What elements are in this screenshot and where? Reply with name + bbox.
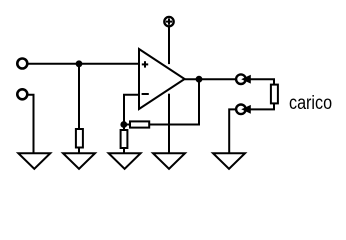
- resistor R4 load: [271, 85, 278, 104]
- ground under R3: [109, 153, 141, 169]
- node junction at R1 top: [77, 61, 82, 66]
- connector J4: [236, 105, 246, 115]
- wire J4 to ground: [229, 109, 236, 154]
- ground under op-amp: [153, 153, 185, 169]
- wire junction down to R1: [78, 64, 80, 129]
- wire op-amp V- pin to ground: [168, 94, 170, 154]
- wire node to R2: [124, 124, 130, 126]
- input terminal J2: [17, 89, 27, 99]
- resistor R1: [76, 129, 83, 148]
- op-amp U1: [139, 49, 185, 109]
- wire R2 to output: [149, 79, 199, 124]
- connector J3: [236, 74, 246, 84]
- node output junction: [197, 77, 202, 82]
- wire J1 to op-amp + input: [28, 63, 140, 65]
- wire op-amp - input to feedback node: [124, 95, 139, 125]
- wire op-amp output: [185, 78, 236, 80]
- node feedback junction: [121, 122, 126, 127]
- resistor R2 feedback: [130, 121, 149, 127]
- ground under R1: [63, 153, 95, 169]
- input terminal J1: [17, 59, 27, 69]
- wire R3 to ground: [123, 148, 125, 154]
- wire node down to R3: [123, 125, 125, 131]
- wire V+ to op-amp power pin: [168, 27, 170, 64]
- wire R1 to ground: [78, 148, 80, 155]
- power supply V+: [164, 17, 173, 26]
- wire J2 to ground: [28, 95, 34, 154]
- wire J3 to load: [250, 79, 274, 84]
- resistor R3: [121, 130, 128, 148]
- wire load to J4: [250, 103, 274, 109]
- ground under J2: [18, 153, 50, 169]
- ground under J4: [213, 153, 245, 169]
- label carico: [289, 93, 332, 115]
